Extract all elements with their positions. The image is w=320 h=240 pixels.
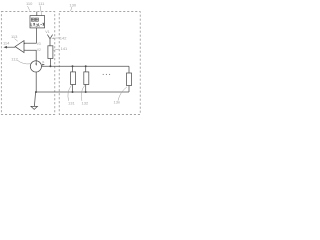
svg-text:110: 110: [26, 1, 33, 6]
svg-text:V1: V1: [45, 30, 49, 34]
junction dot bottom R131: [72, 91, 74, 93]
wire box bottom to V3 corner: [36, 28, 38, 43]
svg-text:V2: V2: [37, 48, 41, 52]
V1 arrow: [47, 35, 52, 46]
label 13n: [114, 100, 121, 105]
svg-text:131: 131: [68, 101, 75, 106]
op-amp U113 triangle: [15, 41, 24, 53]
svg-text:112: 112: [11, 56, 18, 61]
svg-text:142: 142: [60, 35, 67, 40]
wire box top to border: [36, 12, 38, 16]
svg-text:130: 130: [69, 2, 76, 7]
arrowhead 114: [3, 46, 7, 49]
svg-text:113: 113: [11, 34, 18, 39]
wire R141 bottom to bus: [49, 59, 51, 67]
bottom bus: [36, 91, 129, 93]
label 113: [11, 34, 18, 39]
junction dot bus R132: [85, 65, 87, 67]
leader 142: [53, 37, 59, 39]
node V3 label: [37, 42, 41, 46]
op-amp minus mark: [24, 49, 26, 51]
current direction arrow: [42, 64, 45, 66]
svg-text:V3: V3: [37, 42, 41, 46]
block 130 dashed box: [59, 12, 140, 115]
label 130: [69, 2, 76, 7]
svg-text:132: 132: [82, 101, 89, 106]
regulator U111 box: [30, 16, 45, 28]
label 141: [61, 46, 68, 51]
wire opamp top input: [24, 42, 37, 44]
block 110 dashed box: [1, 12, 55, 115]
label 142: [60, 35, 67, 40]
top bus: [42, 65, 130, 67]
current source internal arrow: [35, 61, 37, 64]
resistor R141: [48, 46, 53, 59]
node V2 label: [37, 48, 41, 52]
label 131: [68, 101, 75, 106]
label 110: [26, 1, 33, 6]
resistor R13n with right corner: [128, 66, 130, 73]
svg-text:I1: I1: [42, 60, 45, 64]
ground stem: [34, 92, 35, 106]
label 114: [3, 41, 10, 46]
wire circle bottom down: [35, 72, 37, 92]
svg-text:13n: 13n: [114, 100, 121, 105]
label 112: [11, 56, 18, 61]
output wire 114: [5, 46, 15, 48]
resistor R132: [85, 66, 87, 72]
junction dot bus R131: [72, 65, 74, 67]
ground symbol: [31, 106, 38, 109]
svg-text:114: 114: [3, 41, 10, 46]
resistor R131: [72, 66, 74, 72]
junction dot V2 bus / R141: [49, 65, 51, 67]
label 111: [38, 1, 45, 6]
current source Q112 circle: [30, 61, 41, 72]
wire opamp bottom input to V2 corner down: [24, 50, 36, 61]
label 132: [82, 101, 89, 106]
leader 141: [53, 49, 59, 50]
regulator text: [31, 18, 44, 26]
svg-text:111: 111: [38, 1, 45, 6]
op-amp plus mark: [24, 43, 26, 45]
junction dot bottom R132: [85, 91, 87, 93]
junction dot: [35, 91, 37, 93]
svg-text:141: 141: [61, 46, 68, 51]
node V1 label: [45, 30, 49, 34]
ellipsis dots: [103, 74, 111, 75]
